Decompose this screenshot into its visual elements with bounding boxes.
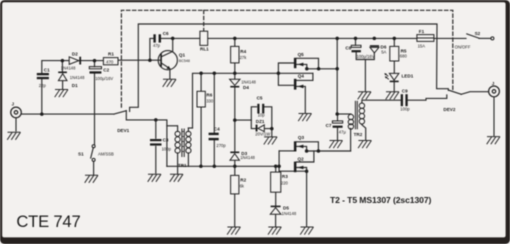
svg-text:AM/SSB: AM/SSB	[98, 151, 114, 156]
svg-text:DEV1: DEV1	[117, 128, 129, 133]
svg-text:470: 470	[106, 59, 114, 64]
svg-text:15A: 15A	[418, 44, 426, 49]
svg-text:DEV2: DEV2	[443, 107, 455, 112]
svg-text:Q5: Q5	[298, 52, 305, 57]
svg-text:R3: R3	[282, 174, 288, 179]
svg-text:10p: 10p	[258, 112, 266, 117]
svg-text:CTE 747: CTE 747	[16, 212, 80, 231]
svg-text:680: 680	[400, 54, 408, 59]
svg-text:ON/OFF: ON/OFF	[455, 44, 471, 49]
svg-text:R6: R6	[206, 93, 212, 98]
svg-text:DZ1: DZ1	[256, 119, 265, 124]
svg-text:D1: D1	[72, 83, 78, 88]
svg-text:S1: S1	[78, 151, 84, 156]
svg-text:Q1: Q1	[179, 53, 186, 58]
svg-text:R2: R2	[240, 177, 246, 182]
svg-text:C3: C3	[163, 138, 169, 143]
svg-text:5A: 5A	[381, 49, 386, 54]
svg-text:220: 220	[281, 181, 289, 186]
svg-text:D2: D2	[72, 51, 78, 56]
svg-text:R5: R5	[401, 48, 407, 53]
svg-text:LED1: LED1	[402, 73, 414, 78]
svg-text:C1: C1	[44, 68, 50, 73]
svg-text:C8: C8	[345, 46, 351, 51]
svg-text:330: 330	[206, 99, 214, 104]
svg-text:Q2: Q2	[298, 157, 305, 162]
svg-text:1N4148: 1N4148	[241, 79, 256, 84]
svg-text:1N4148: 1N4148	[70, 75, 85, 80]
svg-text:C6: C6	[163, 31, 169, 36]
svg-text:1N4148: 1N4148	[61, 65, 76, 70]
svg-text:C2: C2	[103, 68, 109, 73]
svg-text:22p: 22p	[39, 83, 47, 88]
svg-text:100μ/16V: 100μ/16V	[95, 76, 113, 81]
svg-text:TR2: TR2	[354, 132, 363, 137]
svg-text:27k: 27k	[240, 55, 248, 60]
svg-text:S2: S2	[475, 31, 481, 36]
svg-text:TR1: TR1	[178, 163, 187, 168]
svg-text:T2 - T5 MS1307 (2sc1307): T2 - T5 MS1307 (2sc1307)	[330, 195, 431, 205]
svg-text:1N4148: 1N4148	[240, 155, 255, 160]
svg-text:R1: R1	[108, 51, 114, 56]
svg-text:1N4148: 1N4148	[282, 211, 297, 216]
svg-text:100μ/16V: 100μ/16V	[357, 54, 375, 59]
svg-text:C7: C7	[326, 123, 332, 128]
svg-text:RL1: RL1	[200, 47, 209, 52]
svg-text:C9: C9	[402, 88, 408, 93]
svg-text:C5: C5	[257, 96, 263, 101]
svg-text:J: J	[12, 101, 15, 106]
svg-text:47p: 47p	[153, 43, 161, 48]
svg-text:47μ: 47μ	[339, 130, 347, 135]
svg-text:F1: F1	[419, 29, 425, 34]
svg-text:Q4: Q4	[298, 74, 305, 79]
svg-text:J: J	[492, 81, 495, 86]
svg-text:R4: R4	[240, 49, 246, 54]
svg-text:100p: 100p	[400, 106, 410, 111]
svg-text:Q3: Q3	[298, 135, 305, 140]
svg-text:D4: D4	[243, 85, 249, 90]
svg-text:C4: C4	[214, 127, 220, 132]
svg-text:BC548: BC548	[179, 59, 190, 63]
svg-text:270p: 270p	[216, 143, 226, 148]
svg-text:20V/1W: 20V/1W	[255, 131, 270, 136]
svg-text:100p: 100p	[162, 147, 172, 152]
